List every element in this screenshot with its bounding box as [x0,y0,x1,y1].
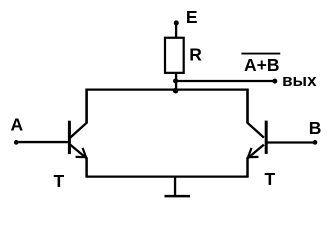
svg-text:R: R [189,44,202,64]
svg-text:вых: вых [282,71,317,90]
svg-text:T: T [54,171,65,191]
svg-text:A+B: A+B [244,55,280,75]
svg-text:B: B [309,118,322,138]
svg-text:A: A [11,114,24,134]
svg-text:E: E [186,7,198,27]
svg-text:T: T [265,169,276,189]
